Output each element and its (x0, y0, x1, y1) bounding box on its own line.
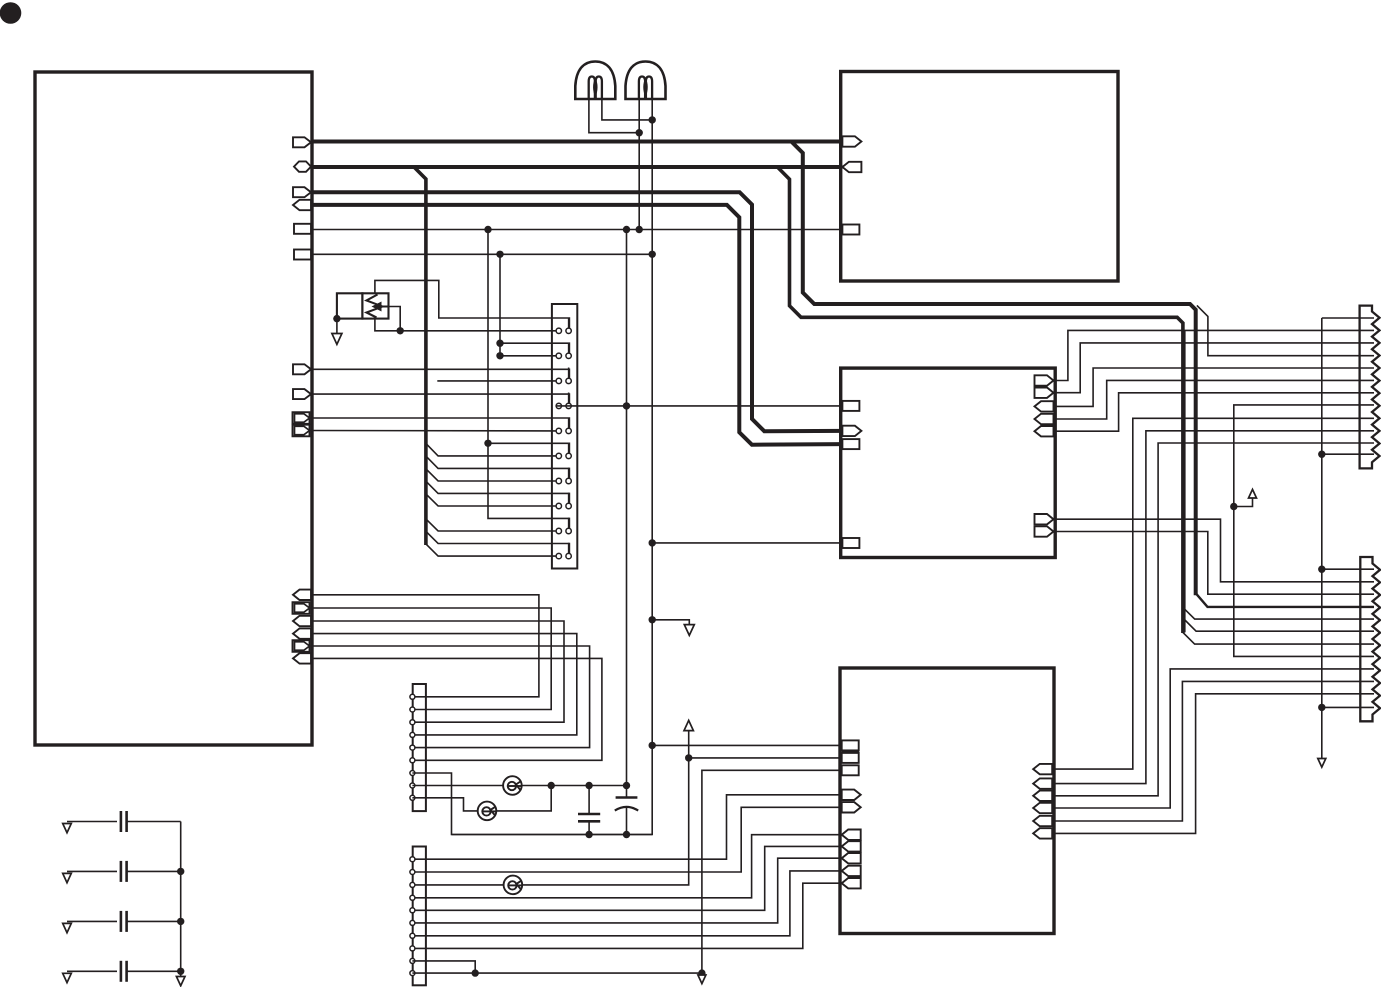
pin 4 of block A (293, 200, 311, 210)
connector CN1 pin pair 2 (556, 353, 561, 358)
connector CN2 pin 3 (410, 720, 415, 725)
IC block C (middle-right board outline) (841, 368, 1055, 557)
ground (cap bus) (176, 977, 185, 986)
surge absorber RV1 (337, 293, 363, 318)
connector CN1 pin pair 7 (556, 478, 561, 483)
pin 9 of block D (left) (842, 853, 861, 863)
connector CN1 housing (552, 304, 577, 569)
junction shield rail b (585, 782, 592, 789)
pin 13 of block A (293, 616, 311, 626)
connector CN1 pin pair 9 (556, 528, 561, 533)
wire net V2 branch to harness bundle (heavy) (414, 167, 426, 545)
pin 7 of block C (right) (1035, 401, 1054, 411)
pin 6 of block C (right) (1035, 388, 1054, 398)
wire lamp PL1 left lead (589, 99, 639, 133)
wire pin17 D to bottom connector row11 (1052, 694, 1374, 834)
junction x652/mid pin4 (649, 539, 656, 546)
wire net V1 branch down (heavy) (791, 142, 1195, 596)
wire pin6 D to CN3 row2 (412, 807, 841, 872)
junction S6/lamp bus (649, 251, 656, 258)
wire bottom connector row12 (1322, 706, 1374, 708)
wire net S5 drop x626 (626, 230, 628, 786)
wire heavy harness fan to bottom connector row5 (1183, 607, 1374, 619)
wire net V3 (pin3 A, heavy) (311, 192, 842, 431)
capacitor C5 (588, 786, 590, 815)
connector CN4 (top right, card edge) (1360, 306, 1380, 469)
ground (connector bus) (1318, 759, 1326, 768)
wire net S6 (pin6 A) (311, 253, 652, 255)
connector CN3 pin 4 (410, 895, 415, 900)
ground (C1) (63, 824, 72, 833)
pin 10 of block A (293, 425, 310, 437)
junction RV1 anode node (397, 327, 404, 334)
connector CN1 pin pair 5 (556, 428, 561, 433)
connector CN3 pin 7 (410, 933, 415, 938)
connector CN1 pin pair 3 (556, 378, 561, 383)
junction C6 bottom (623, 831, 630, 838)
pin 3 of block B (842, 225, 859, 235)
wire CN1 row5 bracket feed (pin9 A) (311, 418, 569, 428)
wire CN1 row4 to pin1 C (556, 405, 842, 407)
pin 10 of block D (left) (842, 866, 861, 876)
wire net V1 spur to top connector row4 (1197, 305, 1374, 355)
junction S6/x500 (496, 251, 503, 258)
connector CN3 pin 2 (410, 870, 415, 875)
capacitor C4 (67, 970, 117, 972)
pin 1 of block A (293, 137, 311, 147)
junction pin3D/arrow (685, 754, 692, 761)
pin 2 of block B (842, 162, 861, 172)
capacitor C2 (67, 870, 117, 872)
pin 9 of block A (293, 412, 310, 424)
wire CN1 row3 left stub (437, 380, 556, 382)
bullet marker (0, 2, 21, 24)
wire CN3 row3 shield to test point (412, 758, 688, 885)
pin 15 of block A (293, 640, 310, 652)
wire lamp PL1 right lead (602, 99, 652, 120)
connector CN3 pin 10 (410, 971, 415, 976)
wire pin15 D to bottom connector row9 (1052, 669, 1374, 808)
capacitor C6 (electrolytic) (626, 786, 628, 798)
wire CN1 row2 left feed (500, 355, 556, 357)
connector CN3 pin 1 (410, 857, 415, 862)
pin 8 of block C (right) (1035, 414, 1054, 424)
junction x488 bracket6 (484, 440, 491, 447)
junction lamp node a (636, 129, 643, 136)
wire CN1 row4 bracket feed (pin8 A) (311, 394, 569, 403)
pin 7 of block A (293, 364, 311, 374)
wire pin12 D to top connector row9 (1052, 418, 1374, 769)
wire CN3 row10 ground run (412, 972, 702, 974)
wire CN1 row1 left feed (from RV1) (375, 319, 556, 331)
junction cap bus a (177, 868, 184, 875)
signal arrow marker M2 (1234, 498, 1253, 507)
pin 14 of block A (293, 628, 311, 638)
wire top connector row12 (1322, 453, 1374, 455)
pin 12 of block D (right) (1033, 764, 1052, 774)
shield terminal E2 (478, 802, 497, 821)
wire pin5 D to CN3 row1 (412, 795, 841, 859)
pin 5 of block C (right) (1035, 375, 1054, 385)
junction shield rail c (623, 782, 630, 789)
pin 3 of block C (left) (842, 439, 859, 449)
connector CN5 (bottom right, card edge) (1360, 557, 1380, 721)
pin 6 of block A (294, 250, 311, 260)
wire CN1 row1 bracket feed (from RV1 top) (375, 280, 570, 328)
wire RV1 arrow lead (389, 307, 401, 331)
wire net V4 (pin4 A, heavy) (311, 205, 842, 445)
junction row4/x626 (623, 402, 630, 409)
IC block B (top-right board outline) (841, 72, 1118, 282)
connector CN1 pin pair 4 (556, 403, 561, 408)
wire pin5 C to top connector row2 (1054, 330, 1375, 380)
connector CN1 pin pair 8 (556, 503, 561, 508)
junction x652 gnd tap (649, 616, 656, 623)
connector CN3 pin 6 (410, 920, 415, 925)
pin 1 of block B (842, 136, 861, 146)
wire x500 drop (499, 254, 501, 355)
connector CN2 pin 6 (410, 758, 415, 763)
connector CN3 pin 3 (410, 882, 415, 887)
ground (C3) (63, 923, 72, 932)
pin 6 of block D (left) (842, 802, 861, 812)
junction RV1 ground node (333, 315, 340, 322)
wire bottom connector row1 (1322, 568, 1374, 570)
wire CN1 row6 bracket feed (488, 443, 569, 453)
junction row8 marker tap (1230, 503, 1237, 510)
wire lamp PL2 right lead bus down (452, 99, 653, 835)
junction ground bus bottom (698, 969, 705, 976)
wire pin10 D to CN3 row7 (412, 871, 841, 936)
IC block D (bottom-right board outline) (840, 668, 1054, 934)
wire pin9 C to top connector row7 (1054, 393, 1375, 431)
pin 3 of block D (left) (842, 753, 859, 763)
wire net V1 (pin1 A to pin1 B, heavy) (311, 140, 842, 144)
wire gnd stub (652, 620, 689, 625)
wire net S5 (pin5 A to pin3 B) (311, 229, 842, 231)
signal arrow marker M1 (688, 731, 690, 758)
pin 12 of block A (293, 602, 310, 614)
wire x488 drop (488, 230, 569, 529)
ground (RV1) (332, 334, 342, 345)
wire top connector row8 chain (1234, 405, 1374, 657)
wire pin3 D with test point (689, 757, 842, 759)
wire pin6 C to top connector row3 (1054, 343, 1375, 393)
wire heavy harness fan to bottom connector row6 (1184, 620, 1374, 632)
pin 13 of block D (right) (1033, 778, 1052, 788)
connector CN2 pin 1 (410, 694, 415, 699)
junction gnd bus row1 bottom (1318, 566, 1325, 573)
wire CN2 row7 to shield rail (412, 773, 652, 835)
wire pin4 D to ground bus (702, 770, 842, 973)
wire net V2 (pin2 A to pin2 B, heavy) (311, 165, 842, 169)
junction S5/lamp2 (636, 226, 643, 233)
pin 2 of block A (294, 161, 311, 171)
pin 15 of block D (right) (1033, 803, 1052, 813)
wire pin7 C to top connector row5 (1054, 368, 1375, 406)
wire pin16 D to bottom connector row10 (1052, 681, 1374, 821)
wire pin8 D to CN3 row5 (412, 846, 841, 910)
junction x500 row2 (496, 352, 503, 359)
pin 16 of block D (right) (1033, 816, 1052, 826)
wire CN3 row9 (412, 961, 475, 973)
connector CN1 pin pair 6 (556, 453, 561, 458)
pin 3 of block A (293, 187, 311, 197)
wire ground bus right (1322, 317, 1374, 319)
pin 5 of block A (294, 224, 311, 234)
ground (C2) (63, 873, 72, 882)
wire x652 to pin4 C (652, 542, 842, 544)
pin 11 of block D (left) (842, 878, 861, 888)
wire pin11 C to bottom connector row3 (1054, 532, 1375, 595)
ground (lamp bus) (684, 625, 694, 636)
connector CN1 pin pair 10 (556, 553, 561, 558)
connector CN3 housing (413, 847, 426, 986)
connector CN3 pin 9 (410, 958, 415, 963)
pin 11 of block C (right) (1035, 526, 1054, 536)
wire x652 to pin1 D (652, 744, 842, 746)
wire pin10 C to bottom connector row2 (1054, 519, 1375, 582)
wire CN2 row9 via shield E2 (412, 786, 551, 811)
wire CN1 row3 bracket feed (pin7 A) (311, 369, 569, 378)
pin 4 of block C (left) (842, 538, 859, 548)
junction gnd bus row12 top (1318, 451, 1325, 458)
wire CN1 row5 left feed (pin10 A) (311, 430, 556, 432)
shield terminal E3 (504, 876, 523, 895)
junction gnd bus row12 bottom (1318, 704, 1325, 711)
pin 11 of block A (293, 590, 311, 600)
wire heavy harness down right (3 cores) (777, 167, 1183, 633)
connector CN1 pin pair 1 (556, 328, 561, 333)
wire loom block A to CN2 rows1-6 (311, 595, 539, 697)
pin 10 of block C (right) (1035, 514, 1054, 524)
wire CN1 row2 bracket feed (500, 343, 569, 353)
wire lamp PL2 left lead down (638, 99, 640, 230)
lamp PL1 (575, 62, 615, 100)
pin 2 of block C (left) (842, 426, 861, 436)
wire harness fan to CN1 rows (426, 443, 556, 456)
pin 16 of block A (293, 653, 311, 663)
pin 7 of block D (left) (842, 830, 861, 840)
junction cap bus b (177, 918, 184, 925)
capacitor C1 (67, 821, 117, 823)
junction lamp node b (649, 116, 656, 123)
junction x652/pin1D (649, 742, 656, 749)
pin 5 of block D (left) (842, 790, 861, 800)
pin 14 of block D (right) (1033, 791, 1052, 801)
lamp PL2 (626, 62, 666, 100)
pin 1 of block C (left) (842, 401, 859, 411)
wire CN2 row8 shield feed (412, 785, 626, 787)
IC block A (left board outline) (35, 72, 312, 745)
wire capacitor group bus (180, 822, 182, 977)
connector CN2 pin 9 (410, 795, 415, 800)
ground (CN3 bus) (698, 975, 706, 984)
wire RV1 to ground (336, 319, 338, 334)
capacitor C3 (67, 920, 117, 922)
wire pin8 C to top connector row6 (1054, 380, 1375, 419)
junction shield rail a (548, 782, 555, 789)
junction S5/x626 (623, 226, 630, 233)
connector CN2 pin 5 (410, 745, 415, 750)
wire pin7 D to CN3 row4 (412, 835, 841, 898)
junction S5/x488 (484, 226, 491, 233)
connector CN2 pin 8 (410, 783, 415, 788)
junction x500 bracket2 (496, 340, 503, 347)
connector CN3 pin 8 (410, 946, 415, 951)
pin 1 of block D (left) (842, 740, 859, 750)
connector CN3 pin 5 (410, 908, 415, 913)
wire pin9 D to CN3 row6 (412, 858, 841, 923)
connector CN2 pin 4 (410, 732, 415, 737)
junction CN3 rows 9/10 (472, 969, 479, 976)
pin 8 of block D (left) (842, 841, 861, 851)
wire pin14 D to top connector row11 (1052, 443, 1374, 796)
ground (C4) (63, 973, 72, 982)
junction cap bus c (177, 968, 184, 975)
junction C5 bottom (585, 831, 592, 838)
pin 4 of block D (left) (842, 765, 859, 775)
wire pin11 D to CN3 row8 (412, 883, 841, 948)
pin 8 of block A (293, 389, 311, 399)
wire heavy harness fan to bottom connector row7 (1183, 632, 1374, 644)
wire pin13 D to top connector row10 (1052, 431, 1374, 784)
pin 9 of block C (right) (1035, 426, 1054, 436)
pin 2 of block D (left, solid) (842, 750, 860, 753)
connector CN2 housing (413, 684, 426, 811)
pin 17 of block D (right) (1033, 828, 1052, 838)
connector CN2 pin 2 (410, 707, 415, 712)
connector CN2 pin 7 (410, 771, 415, 776)
shield terminal E1 (503, 776, 522, 795)
